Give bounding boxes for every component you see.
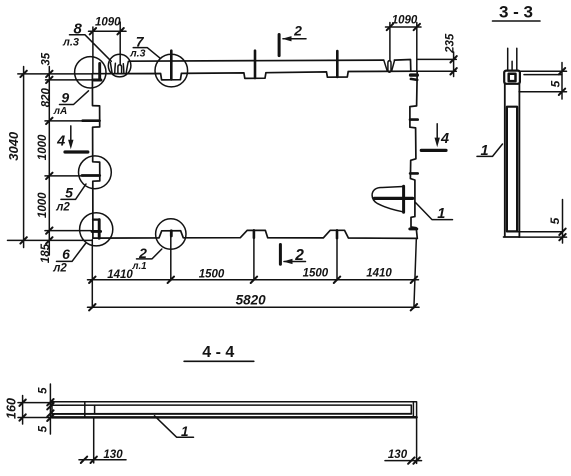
lifting anchor rod top notch 2 [254,51,257,78]
svg-text:5: 5 [548,217,562,224]
lifting anchor rod bottom notch 2 [253,230,256,238]
svg-text:1500: 1500 [303,268,329,280]
dimension line 1410/1500/1500/1410 [88,279,419,281]
detail circle 8 around tulip [108,54,131,77]
svg-text:5820: 5820 [236,293,267,308]
section 3-3 loop whiskers [508,48,517,70]
section 4-4 left dim extensions [18,402,52,404]
svg-text:4: 4 [56,133,65,149]
corner anchor mark top-left [98,64,101,79]
section 4-4 rib end verticals right [410,405,412,414]
svg-text:л2: л2 [55,201,70,213]
svg-text:л.3: л.3 [62,37,79,49]
svg-text:2: 2 [293,22,302,38]
detail circle 5 left edge notch [79,156,112,189]
corner anchor mark bottom-left [93,219,98,221]
section 3-3 flange box [504,71,520,84]
detail circle 2 bottom notch [156,219,186,249]
svg-text:185: 185 [40,243,52,263]
embedded plate tick right edge upper [410,118,418,121]
svg-text:4 - 4: 4 - 4 [202,344,234,361]
section 3-3 bottom dim 5 [517,231,563,233]
svg-text:35: 35 [40,52,52,65]
section 3-3 inner cavity rectangle [507,107,517,232]
lifting anchor rod bottom notch 3 [336,230,339,238]
section 4-4 dim 130 left [93,417,95,463]
svg-text:9: 9 [61,90,69,106]
callout 1 leader (section 3-3) [477,144,503,156]
detail circle 9 top-left corner [75,57,106,88]
section 4-4 dim 160 vertical [22,396,24,425]
tulip slot detail 8 (top left keyhole notch) [110,63,115,74]
section 4-4 title underline [184,360,254,362]
callout 6 leader [57,244,86,262]
detail circle 6 bottom-left corner [80,213,113,246]
embedded plate tick left edge lower [82,174,100,177]
corner anchor mark bottom-right [410,227,417,230]
svg-text:5: 5 [38,425,50,432]
section 3-3 flange inner square [509,74,516,81]
callout 2 leader [137,249,162,259]
svg-text:160: 160 [5,398,19,419]
callout 8 leader [70,35,112,62]
embedded plate tick left edge upper [83,119,100,122]
left dim column extension lines [18,73,92,75]
svg-text:2: 2 [138,245,147,261]
lifting anchor rod top notch 3 [336,51,339,77]
section 3-3 body [504,84,520,237]
svg-text:3 - 3: 3 - 3 [499,3,533,22]
dimension line 3040 vertical [23,67,25,248]
svg-text:1: 1 [437,206,445,222]
svg-text:820: 820 [41,88,53,108]
svg-text:л.3: л.3 [129,47,145,59]
svg-text:5: 5 [38,387,50,394]
callout 5 leader [61,184,86,199]
dimension line 5820 [88,306,420,308]
corner anchor mark top-right [411,73,418,76]
section 4-4 rib end verticals left [84,402,86,417]
svg-text:1: 1 [480,143,488,159]
dimension line 35/820/1000/1000/185 vertical [48,67,50,256]
svg-text:1410: 1410 [107,269,133,281]
dimension 1090 top-right: line and extensions [386,26,422,28]
dimension 1090 top-left ticks [90,28,124,34]
lifting anchor rod top notch 1 [170,51,173,80]
section mark 2 bottom: arrow [284,261,306,263]
svg-text:л2: л2 [52,263,67,275]
panel bottom edge with three raised notches [93,230,417,238]
panel top edge inner line with notches [92,71,417,80]
svg-text:8: 8 [74,20,83,37]
callout 1 leader (section 4-4) [155,416,194,437]
svg-text:1: 1 [181,424,189,439]
svg-text:л.1: л.1 [131,261,146,272]
section 3-3 top dim 5 [519,70,566,72]
embedded plate tick right edge lower [410,172,418,175]
section 3-3 title underline [493,20,541,22]
svg-text:1000: 1000 [37,134,49,160]
detail circle 7 top notch [155,54,188,87]
svg-text:130: 130 [103,449,123,461]
panel top edge outer line [129,60,411,72]
section mark 4 left: bar [65,150,88,153]
section 4-4 slab outline [52,402,417,418]
section mark 4 right: bar [421,149,446,152]
section mark 2 bottom: bar [279,245,282,265]
section mark 4 left: arrow [70,126,72,141]
dimension 1090 top-right ticks [387,24,420,30]
dimension 235 right: extensions and line [418,58,457,60]
svg-text:1500: 1500 [199,269,225,281]
svg-text:1090: 1090 [95,17,121,29]
svg-text:2: 2 [294,247,304,264]
section 4-4 dim 130 right [416,417,418,463]
bottom dimension extension lines [91,240,93,308]
svg-text:1000: 1000 [37,192,49,218]
callout 9 leader [60,91,89,105]
callout 7 leader [133,48,160,58]
svg-text:лА: лА [53,106,67,117]
svg-text:1410: 1410 [366,267,392,279]
section 4-4 inner flange lines [53,404,412,406]
svg-text:5: 5 [549,80,563,87]
callout 1 leader (bell) [415,202,453,220]
dimension 1090 top-left: line and extensions [89,30,127,32]
svg-text:3040: 3040 [6,131,21,161]
svg-text:6: 6 [62,246,70,262]
panel left edge with notches [92,74,99,238]
section 4-4 dim 5/5 vertical [49,384,51,434]
section mark 2 top: arrow [283,38,306,40]
tulip slot near right end (small keyhole notch) [384,60,395,71]
svg-text:4: 4 [440,131,449,147]
svg-text:130: 130 [388,449,408,461]
panel right edge with notches [410,71,417,238]
svg-text:5: 5 [65,184,73,200]
lifting pocket detail 1 (bell shape on right edge) [372,187,403,212]
svg-text:235: 235 [445,33,457,54]
svg-text:1090: 1090 [392,14,418,26]
section mark 2 top: bar [278,35,281,56]
section mark 4 right: arrow [436,124,438,139]
lifting anchor rod bottom notch 1 [170,231,173,236]
